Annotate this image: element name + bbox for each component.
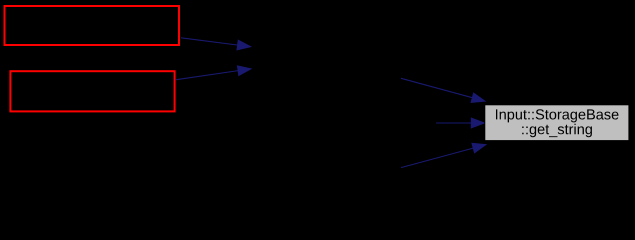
wire: edge C from middle node to get_string box (upper diagonal) [401,78,486,103]
wire: edge A from caller box 1 to middle node [181,38,252,51]
node: caller box 2 (red outline, left) [10,71,174,111]
wire: edge D horizontal arrow into get_string box [436,117,486,128]
label line 1: Input::StorageBase (glyph outlines) [496,109,619,122]
node U1: Input::StorageBase::get_string (gray highlighted node) [485,105,629,141]
wire: edge E from lower middle node to get_string box (lower diagonal) [401,143,487,168]
label line 2: ::get_string (glyph outlines) [522,124,592,138]
node: caller box 1 (red outline, top-left) [5,6,180,45]
wire: edge B from caller box 2 to middle node [175,65,252,80]
